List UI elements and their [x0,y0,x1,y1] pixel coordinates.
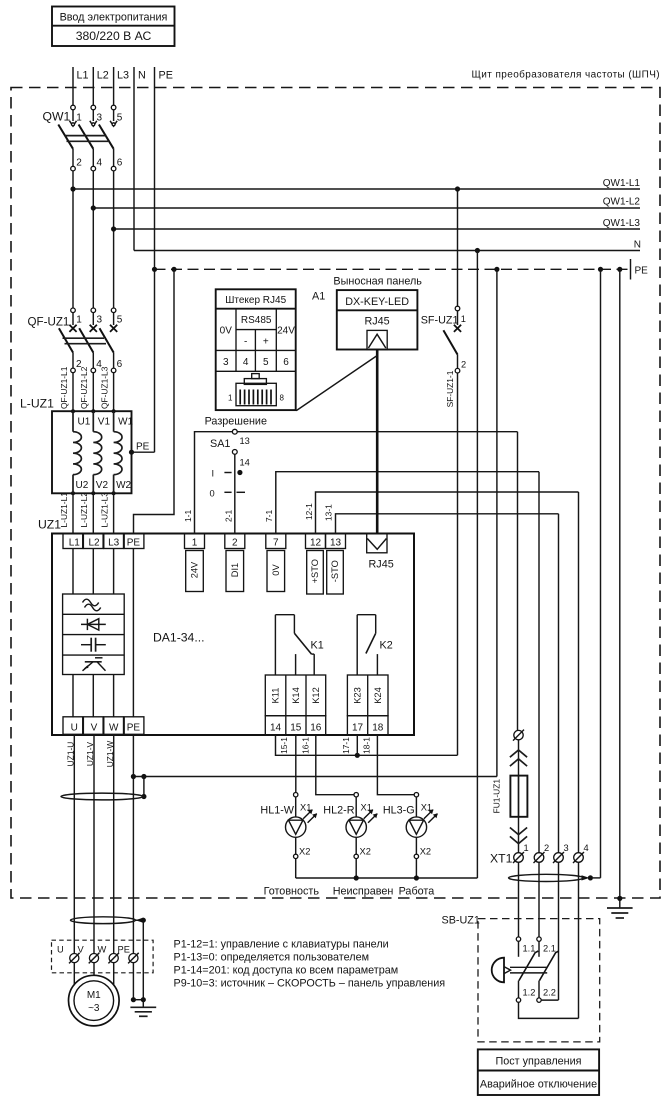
svg-text:N: N [138,70,146,82]
svg-text:RJ45: RJ45 [369,559,394,571]
svg-text:QF-UZ1-L2: QF-UZ1-L2 [79,366,89,409]
svg-text:2: 2 [461,360,466,370]
svg-text:7-1: 7-1 [264,510,274,522]
svg-text:QF-UZ1-L1: QF-UZ1-L1 [59,366,69,409]
svg-text:0V: 0V [271,564,281,576]
svg-text:PE: PE [136,442,150,453]
svg-text:6: 6 [117,359,123,370]
svg-text:Неисправен: Неисправен [333,886,394,898]
svg-text:QW1-L3: QW1-L3 [603,218,641,229]
svg-text:12: 12 [310,538,322,549]
svg-text:15-1: 15-1 [279,737,289,754]
svg-text:V2: V2 [96,480,109,491]
svg-text:12-1: 12-1 [304,503,314,520]
svg-text:SB-UZ1: SB-UZ1 [442,915,480,927]
svg-text:K24: K24 [373,687,383,704]
svg-text:16-1: 16-1 [300,737,310,754]
svg-text:14: 14 [240,458,250,468]
svg-text:Выносная панель: Выносная панель [333,276,422,288]
svg-text:14: 14 [270,723,282,734]
svg-text:M1: M1 [87,990,101,1001]
svg-text:SA1: SA1 [210,438,230,450]
svg-text:Пост управления: Пост управления [496,1056,582,1068]
svg-text:V1: V1 [98,417,111,428]
svg-text:RS485: RS485 [241,315,272,326]
svg-text:2: 2 [76,158,82,169]
svg-text:L-UZ1-L3: L-UZ1-L3 [99,492,109,528]
svg-text:5: 5 [117,113,123,124]
svg-text:K12: K12 [311,687,321,704]
svg-text:5: 5 [117,315,123,326]
svg-text:K1: K1 [311,640,324,652]
svg-text:0V: 0V [220,326,233,337]
svg-text:UZ1: UZ1 [38,518,61,532]
svg-text:6: 6 [283,357,289,368]
svg-text:DI1: DI1 [230,563,240,577]
svg-text:RJ45: RJ45 [364,316,389,328]
svg-text:L-UZ1: L-UZ1 [20,397,54,411]
svg-text:K2: K2 [380,640,393,652]
svg-text:~3: ~3 [88,1003,100,1014]
svg-text:2.1: 2.1 [543,944,556,954]
svg-text:18-1: 18-1 [361,737,371,754]
svg-text:Р9-10=3: источник – СКОРОСТЬ –: Р9-10=3: источник – СКОРОСТЬ – панель уп… [174,978,446,990]
svg-text:Разрешение: Разрешение [205,416,267,428]
svg-text:18: 18 [372,723,384,734]
svg-text:3: 3 [564,843,569,853]
svg-text:FU1-UZ1: FU1-UZ1 [492,779,502,814]
svg-text:2: 2 [544,843,549,853]
svg-text:1: 1 [192,538,198,549]
svg-text:1.1: 1.1 [523,944,536,954]
svg-text:1-1: 1-1 [183,510,193,522]
svg-text:4: 4 [584,843,589,853]
svg-text:L1: L1 [69,538,81,549]
svg-text:-: - [244,337,247,348]
svg-text:2-1: 2-1 [223,510,233,522]
svg-text:1: 1 [76,113,82,124]
svg-text:QW1-L2: QW1-L2 [603,197,641,208]
svg-text:0: 0 [210,489,215,499]
svg-text:U1: U1 [78,417,91,428]
svg-text:L3: L3 [108,538,120,549]
svg-text:+STO: +STO [310,559,320,583]
svg-text:3: 3 [223,357,229,368]
svg-text:2: 2 [232,538,238,549]
svg-text:L1: L1 [77,70,89,82]
svg-text:A1: A1 [312,291,325,303]
svg-text:-STO: -STO [330,560,340,582]
svg-text:24V: 24V [190,561,200,578]
svg-text:+: + [263,337,269,348]
svg-text:HL2-R: HL2-R [323,805,354,817]
svg-text:1: 1 [524,843,529,853]
svg-text:4: 4 [97,158,103,169]
svg-text:X1: X1 [300,803,311,813]
svg-text:3: 3 [97,315,103,326]
svg-text:K14: K14 [291,687,301,704]
svg-text:7: 7 [273,538,279,549]
svg-text:K11: K11 [271,688,281,704]
svg-text:15: 15 [290,723,302,734]
svg-text:L2: L2 [97,70,109,82]
svg-text:1.2: 1.2 [523,988,536,998]
svg-text:Р1-14=201: код доступа ко всем: Р1-14=201: код доступа ко всем параметра… [174,965,399,977]
svg-text:1: 1 [76,315,82,326]
svg-text:13-1: 13-1 [323,504,333,521]
svg-text:Работа: Работа [399,886,435,898]
svg-text:L-UZ1-L2: L-UZ1-L2 [79,492,89,528]
svg-text:PE: PE [127,723,141,734]
svg-text:QF-UZ1-L3: QF-UZ1-L3 [99,366,109,409]
svg-text:1: 1 [228,394,233,403]
svg-text:380/220 В АС: 380/220 В АС [76,29,152,43]
svg-text:2.2: 2.2 [543,988,556,998]
svg-text:Штекер RJ45: Штекер RJ45 [225,295,286,306]
svg-text:UZ1-V: UZ1-V [85,741,95,766]
svg-text:PE: PE [635,266,649,277]
svg-text:UZ1-U: UZ1-U [65,742,75,767]
svg-text:PE: PE [118,945,130,955]
svg-text:HL1-W: HL1-W [260,805,294,817]
svg-text:W: W [109,723,119,734]
svg-text:3: 3 [97,113,103,124]
svg-text:PE: PE [127,538,141,549]
svg-text:W2: W2 [116,480,131,491]
svg-text:QF-UZ1: QF-UZ1 [28,316,70,329]
svg-text:U: U [57,945,64,955]
svg-text:UZ1-W: UZ1-W [105,741,115,768]
svg-text:QW1-L1: QW1-L1 [603,178,641,189]
svg-text:Р1-12=1: управление с клавиату: Р1-12=1: управление с клавиатуры панели [174,939,389,951]
svg-text:Щит преобразователя частоты (Ш: Щит преобразователя частоты (ШПЧ) [472,69,660,81]
svg-text:U2: U2 [76,480,89,491]
svg-text:W1: W1 [118,417,133,428]
svg-text:6: 6 [117,158,123,169]
svg-text:24V: 24V [277,326,295,337]
svg-text:DX-KEY-LED: DX-KEY-LED [345,296,409,308]
svg-text:Аварийное отключение: Аварийное отключение [480,1079,597,1091]
svg-text:SF-UZ1-1: SF-UZ1-1 [445,370,455,407]
svg-text:L2: L2 [88,538,100,549]
svg-text:L3: L3 [117,70,129,82]
svg-text:1: 1 [461,314,466,324]
svg-text:N: N [634,240,641,251]
svg-text:DA1-34...: DA1-34... [153,631,204,645]
svg-text:Ввод электропитания: Ввод электропитания [60,12,168,24]
svg-text:13: 13 [240,436,250,446]
svg-text:SF-UZ1: SF-UZ1 [421,315,459,327]
svg-text:I: I [212,469,215,479]
svg-text:U: U [71,723,78,734]
svg-text:Готовность: Готовность [264,886,320,898]
svg-text:16: 16 [310,723,322,734]
svg-text:17-1: 17-1 [341,737,351,754]
svg-text:QW1: QW1 [43,110,71,124]
svg-text:8: 8 [280,394,285,403]
svg-text:X2: X2 [299,847,310,857]
svg-text:17: 17 [352,723,364,734]
svg-text:5: 5 [263,357,269,368]
svg-text:V: V [91,723,98,734]
svg-text:XT1: XT1 [490,852,513,866]
svg-text:4: 4 [243,357,249,368]
svg-text:Р1-13=0: определяется пользова: Р1-13=0: определяется пользователем [174,952,370,964]
svg-text:HL3-G: HL3-G [383,805,415,817]
svg-text:13: 13 [330,538,342,549]
svg-text:K23: K23 [353,687,363,704]
svg-text:PE: PE [159,70,173,82]
